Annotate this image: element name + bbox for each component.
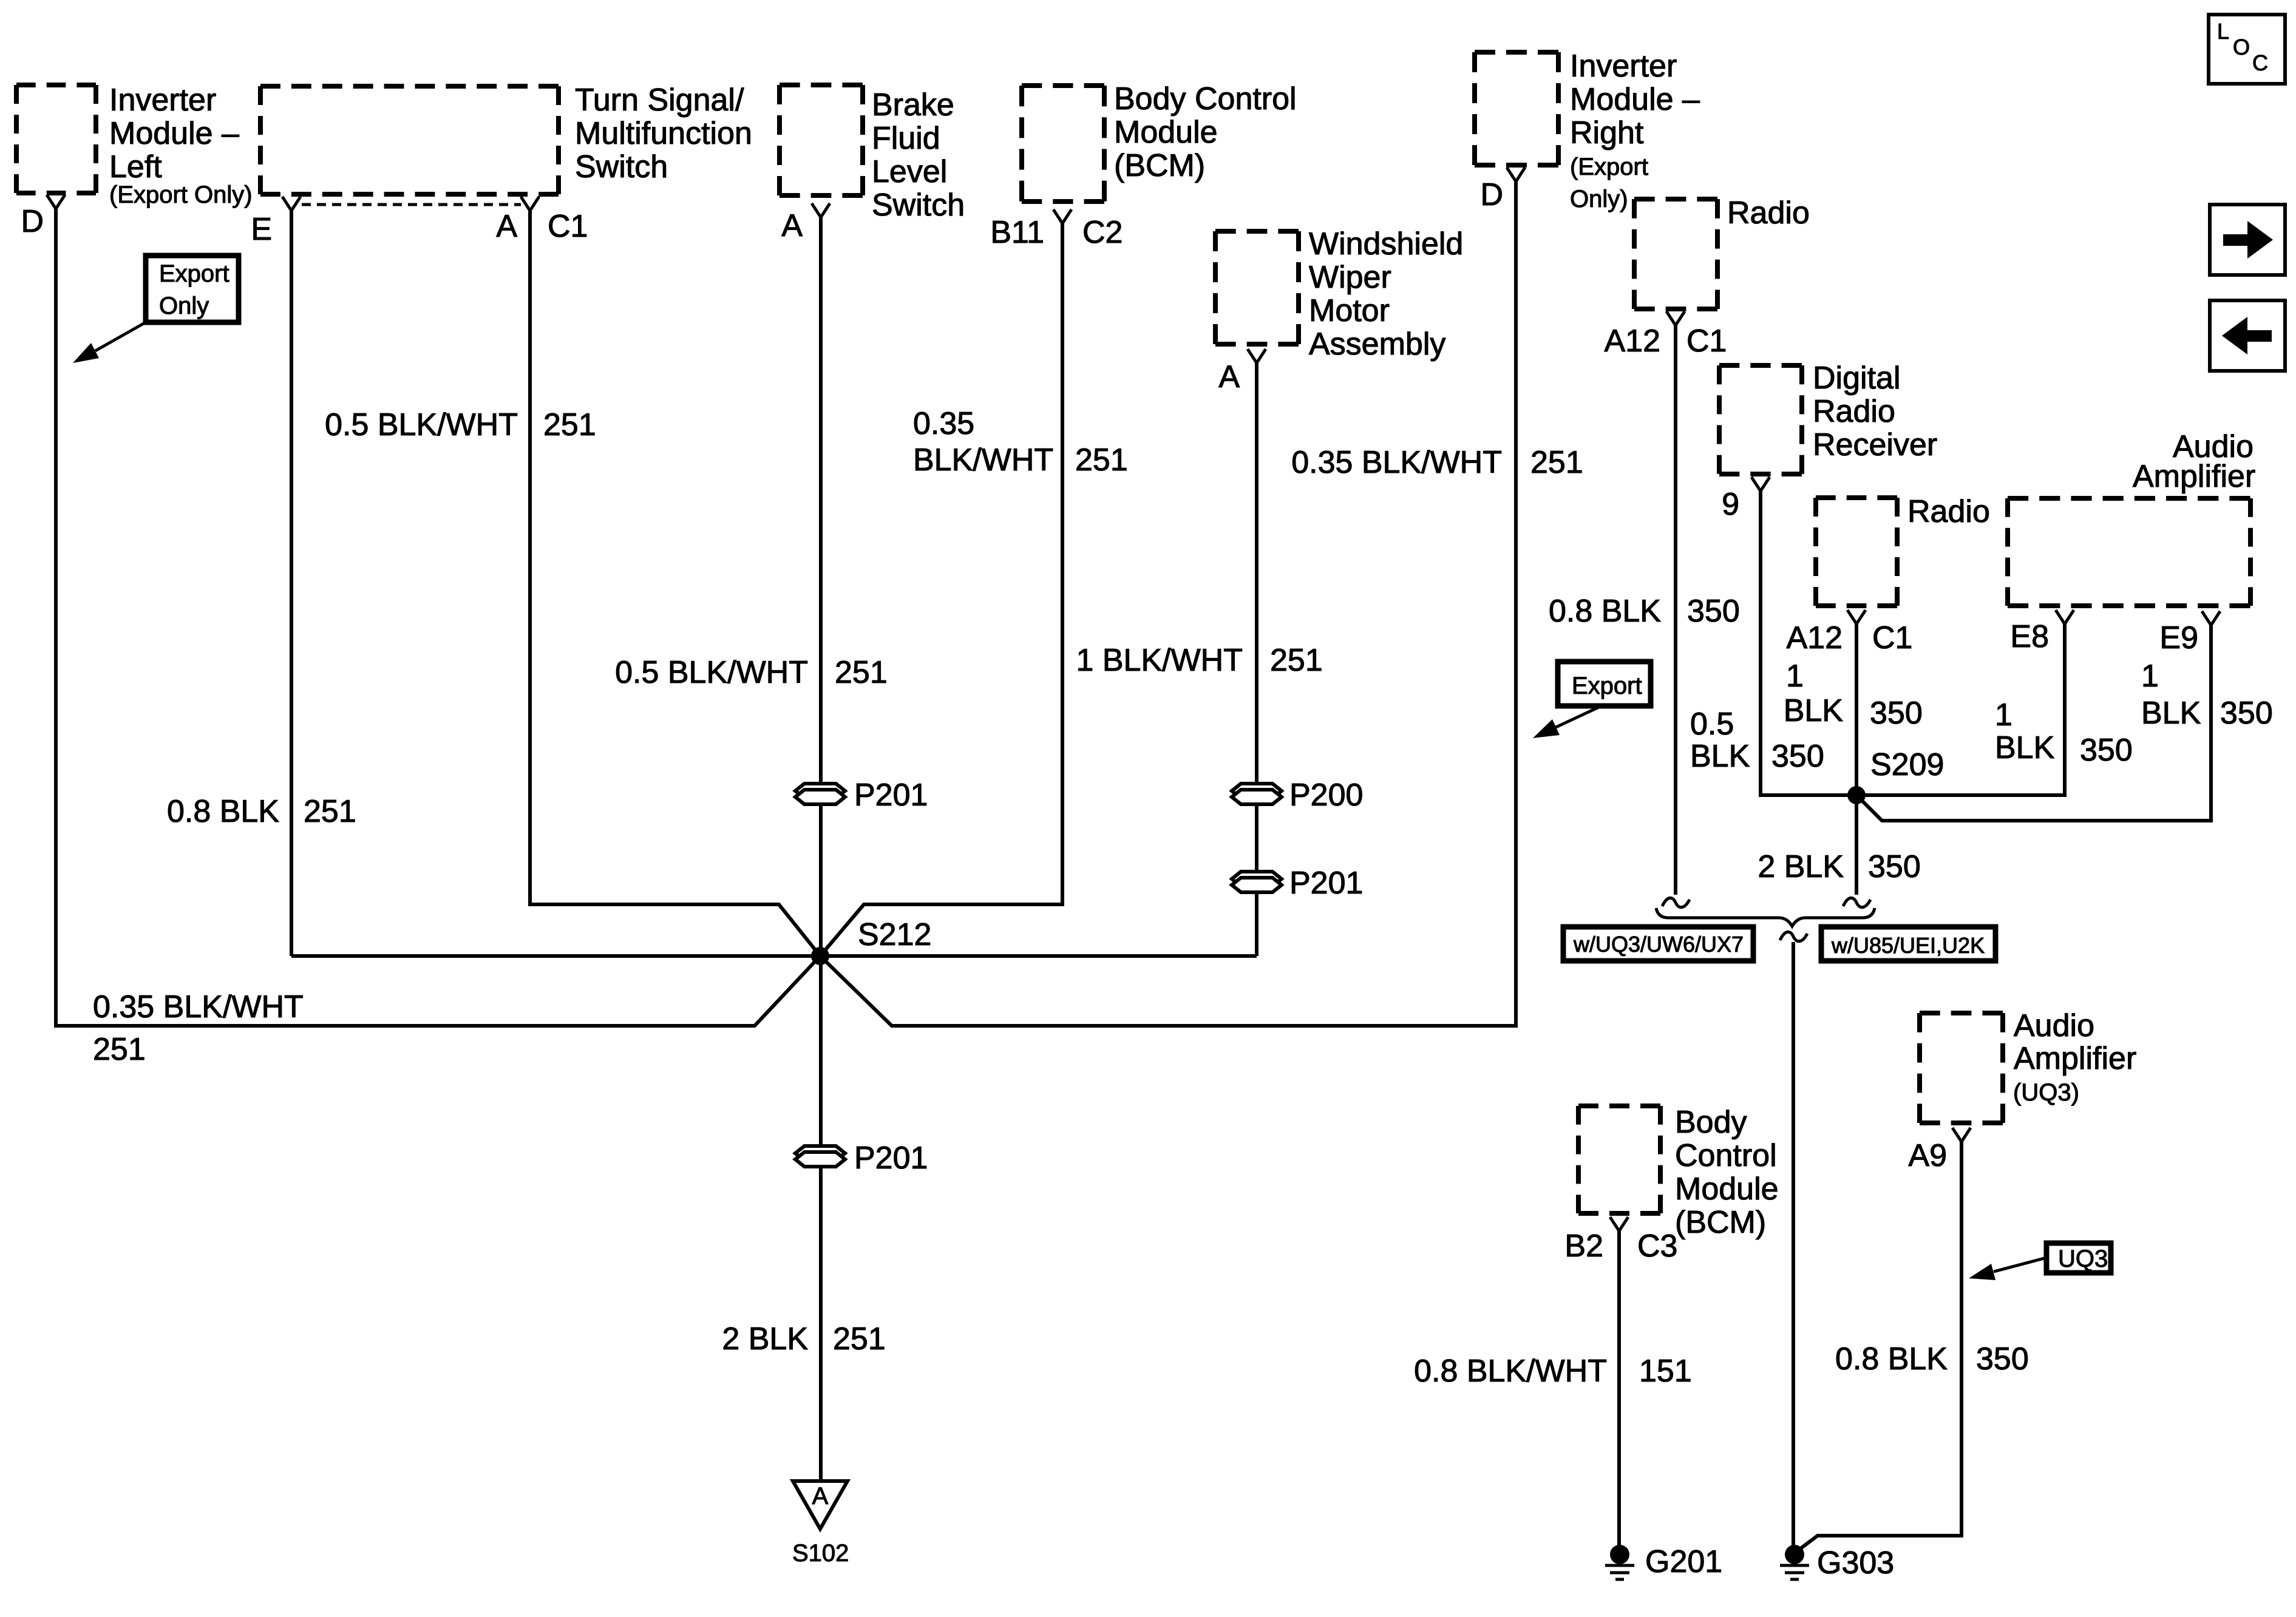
w/UQ3/UW6/UX7 option box [1563, 927, 1753, 961]
svg-text:Multifunction: Multifunction [575, 116, 752, 151]
svg-text:0.35 BLK/WHT: 0.35 BLK/WHT [1291, 445, 1502, 480]
wire inverter left D to S212 low horizontal [56, 209, 820, 1026]
pin A12 C1 radio 2 [1847, 610, 1866, 624]
svg-text:Export: Export [159, 260, 229, 287]
svg-text:350: 350 [1868, 849, 1921, 884]
svg-text:Brake: Brake [872, 87, 954, 123]
windshield wiper motor assembly box [1215, 231, 1299, 344]
svg-text:350: 350 [2220, 696, 2273, 731]
svg-text:Radio: Radio [1907, 494, 1990, 529]
svg-text:0.35 BLK/WHT: 0.35 BLK/WHT [93, 989, 304, 1025]
radio box 2 [1816, 498, 1897, 606]
svg-text:251: 251 [1530, 445, 1583, 480]
inverter module right box [1475, 52, 1558, 165]
squiggle end radio 1 wire [1662, 898, 1690, 907]
svg-text:350: 350 [2080, 733, 2133, 768]
connector P200 on wiper wire [1232, 778, 1363, 813]
body control module bcm 2 label [1675, 1105, 1779, 1240]
svg-text:1: 1 [2141, 659, 2159, 694]
svg-text:BLK: BLK [2141, 696, 2201, 731]
inverter module right label [1570, 49, 1700, 212]
svg-text:0.8 BLK: 0.8 BLK [1549, 594, 1661, 629]
svg-text:1: 1 [1995, 697, 2012, 733]
svg-text:C1: C1 [1872, 620, 1912, 656]
svg-text:350: 350 [1976, 1341, 2029, 1377]
svg-text:C1: C1 [548, 209, 588, 244]
svg-text:O: O [2233, 35, 2250, 59]
svg-text:E8: E8 [2010, 619, 2049, 654]
radio box 1 [1634, 199, 1717, 309]
svg-text:UQ3: UQ3 [2058, 1246, 2108, 1272]
svg-text:A12: A12 [1604, 324, 1660, 359]
S102 triangle [793, 1481, 847, 1529]
body control module bcm label [1114, 81, 1297, 183]
svg-text:Radio: Radio [1727, 195, 1810, 231]
svg-text:A: A [496, 209, 517, 244]
svg-text:S102: S102 [792, 1540, 849, 1567]
svg-text:G303: G303 [1817, 1545, 1894, 1581]
wire turn signal E to S212 [290, 211, 293, 956]
pin A wiper motor [1248, 349, 1266, 363]
svg-text:Amplifier: Amplifier [2014, 1041, 2136, 1076]
svg-text:0.8 BLK: 0.8 BLK [1835, 1341, 1948, 1377]
pin A brake fluid [812, 203, 830, 217]
svg-text:Windshield: Windshield [1309, 226, 1463, 262]
svg-text:Assembly: Assembly [1309, 327, 1445, 362]
inverter module left box [16, 85, 96, 193]
w/U85/UEI,U2K option box [1821, 927, 1995, 961]
svg-text:Receiver: Receiver [1813, 427, 1937, 463]
pin A12 C1 radio 1 [1666, 311, 1685, 325]
svg-text:251: 251 [93, 1032, 146, 1067]
audio amplifier uq3 box [1920, 1013, 2003, 1123]
svg-text:BLK: BLK [1784, 693, 1844, 728]
svg-text:P200: P200 [1289, 778, 1363, 813]
svg-text:Switch: Switch [872, 188, 965, 223]
svg-text:Digital: Digital [1813, 361, 1901, 396]
svg-text:L: L [2217, 19, 2229, 44]
wire from brace down to G303 [1792, 942, 1795, 1550]
svg-text:E: E [251, 212, 272, 247]
svg-text:Inverter: Inverter [109, 83, 216, 118]
wire radio 2 down through S209 to splice brace [1855, 624, 1858, 895]
pin A turn signal [521, 197, 539, 211]
svg-text:Right: Right [1570, 115, 1644, 151]
svg-text:Audio: Audio [2014, 1008, 2094, 1043]
svg-text:Only): Only) [1570, 186, 1628, 212]
svg-text:Module –: Module – [1570, 82, 1700, 117]
svg-text:1: 1 [1786, 659, 1804, 694]
svg-text:C: C [2252, 50, 2268, 75]
audio amplifier uq3 label [2013, 1008, 2136, 1106]
wire S212 horizontal E to wiper [291, 954, 1257, 958]
svg-text:B11: B11 [990, 215, 1044, 250]
export only box with arrow [73, 256, 239, 363]
svg-text:0.8 BLK: 0.8 BLK [167, 794, 279, 829]
svg-text:w/UQ3/UW6/UX7: w/UQ3/UW6/UX7 [1573, 932, 1744, 957]
svg-text:P201: P201 [854, 778, 928, 813]
wire bcm B11 C2 to S212 [820, 223, 1062, 956]
wire audio amplifier uq3 A9 down to G303 [1796, 1142, 1961, 1552]
pin 9 digital radio receiver [1751, 477, 1770, 491]
body control module bcm box [1022, 86, 1104, 202]
left arrow box [2210, 300, 2285, 371]
squiggle end radio 2 wire [1843, 898, 1870, 907]
brake fluid level switch label [872, 87, 965, 223]
connector P201 on brake fluid wire [795, 778, 928, 813]
wire brake fluid A down through S212 to S102 [819, 217, 823, 1479]
svg-text:C1: C1 [1686, 324, 1727, 359]
svg-text:A: A [812, 1483, 829, 1510]
svg-text:2 BLK: 2 BLK [722, 1321, 808, 1357]
svg-text:2 BLK: 2 BLK [1758, 849, 1844, 884]
audio amplifier label [2133, 429, 2255, 494]
pin B2 C3 bcm 2 [1610, 1217, 1628, 1231]
svg-text:251: 251 [1075, 442, 1128, 478]
svg-text:350: 350 [1687, 594, 1740, 629]
svg-text:Turn Signal/: Turn Signal/ [575, 83, 744, 118]
svg-text:G201: G201 [1645, 1544, 1722, 1579]
wire turn signal A to S212 upper horizontal [530, 211, 820, 956]
ground G303 [1780, 1545, 1894, 1581]
svg-text:Motor: Motor [1309, 293, 1390, 328]
svg-text:Only: Only [159, 293, 209, 319]
body control module bcm box 2 [1578, 1106, 1660, 1213]
svg-text:BLK: BLK [1995, 730, 2055, 765]
svg-text:350: 350 [1870, 696, 1923, 731]
svg-text:S212: S212 [858, 917, 931, 952]
digital radio receiver box [1719, 365, 1802, 474]
wire audio amplifier E9 to S209 [1856, 625, 2211, 821]
svg-text:C3: C3 [1637, 1229, 1677, 1264]
connector P201 on S212 to S102 wire [795, 1141, 928, 1176]
junction S212 [811, 947, 829, 965]
svg-text:(UQ3): (UQ3) [2013, 1079, 2079, 1106]
digital radio receiver label [1813, 361, 1937, 463]
svg-text:Level: Level [872, 154, 947, 189]
svg-text:Export: Export [1572, 673, 1642, 699]
svg-text:B2: B2 [1564, 1229, 1603, 1264]
wire inverter right D down and left to S212 [820, 181, 1516, 1026]
svg-text:A12: A12 [1786, 620, 1843, 656]
wire wiper A down to S212 horizontal [1255, 363, 1258, 956]
pin D inverter left [47, 195, 65, 209]
svg-text:0.8 BLK/WHT: 0.8 BLK/WHT [1414, 1354, 1607, 1389]
svg-text:Inverter: Inverter [1570, 49, 1677, 84]
svg-text:151: 151 [1639, 1354, 1692, 1389]
audio amplifier box [2008, 498, 2250, 606]
svg-text:251: 251 [304, 794, 356, 829]
svg-text:Body Control: Body Control [1114, 81, 1297, 117]
wire radio 1 down to splice brace [1674, 325, 1677, 895]
svg-text:w/U85/UEI,U2K: w/U85/UEI,U2K [1831, 933, 1985, 958]
svg-text:251: 251 [833, 1321, 886, 1357]
right arrow box [2210, 205, 2285, 275]
pin E turn signal [282, 197, 301, 211]
svg-text:0.5 BLK/WHT: 0.5 BLK/WHT [615, 655, 808, 690]
svg-text:C2: C2 [1082, 215, 1123, 250]
brake fluid level switch box [779, 85, 863, 195]
svg-text:BLK: BLK [1690, 739, 1750, 774]
svg-text:Module: Module [1114, 115, 1218, 150]
turn signal inner dashed line [302, 203, 521, 206]
svg-text:D: D [1480, 177, 1503, 212]
pin B11 C2 bcm [1053, 209, 1072, 223]
svg-text:0.5 BLK/WHT: 0.5 BLK/WHT [325, 407, 518, 442]
ground G201 [1605, 1544, 1722, 1579]
pin D inverter right [1507, 168, 1525, 181]
svg-text:1 BLK/WHT: 1 BLK/WHT [1076, 643, 1243, 678]
svg-text:A: A [1218, 359, 1240, 395]
svg-text:Body: Body [1675, 1105, 1747, 1140]
svg-text:Fluid: Fluid [872, 121, 940, 156]
junction S209 [1847, 786, 1866, 804]
turn signal multifunction switch box [260, 86, 559, 194]
pin E9 audio amplifier [2202, 611, 2220, 625]
uq3 box with arrow [1969, 1243, 2111, 1280]
squiggle below brace [1780, 932, 1807, 941]
svg-text:E9: E9 [2159, 620, 2198, 656]
svg-text:Switch: Switch [575, 149, 668, 185]
svg-text:251: 251 [543, 407, 596, 442]
svg-text:P201: P201 [1289, 866, 1363, 901]
underbrace [1656, 908, 1875, 926]
svg-text:A: A [781, 208, 803, 243]
wire bcm 2 down to G201 [1617, 1231, 1621, 1547]
svg-text:Module –: Module – [109, 116, 239, 151]
svg-text:P201: P201 [854, 1141, 928, 1176]
svg-text:Wiper: Wiper [1309, 260, 1391, 295]
wire digital radio receiver 9 to S209 [1761, 491, 1856, 795]
svg-text:350: 350 [1771, 739, 1824, 774]
windshield wiper motor assembly label [1309, 226, 1463, 362]
svg-text:251: 251 [835, 655, 888, 690]
svg-text:Control: Control [1675, 1138, 1777, 1173]
loc box [2209, 15, 2285, 84]
wire audio amplifier E8 to S209 [1856, 624, 2065, 795]
svg-text:D: D [21, 204, 44, 239]
svg-text:251: 251 [1270, 643, 1323, 678]
svg-text:(Export: (Export [1570, 154, 1648, 180]
svg-text:0.35: 0.35 [913, 406, 974, 441]
pin E8 audio amplifier [2056, 610, 2074, 624]
svg-text:S209: S209 [1870, 747, 1944, 782]
svg-text:0.5: 0.5 [1690, 707, 1734, 742]
connector P201 lower on wiper wire [1232, 866, 1363, 901]
svg-text:9: 9 [1722, 487, 1739, 522]
turn signal multifunction switch label [575, 83, 752, 185]
svg-text:(BCM): (BCM) [1114, 148, 1205, 183]
svg-text:Amplifier: Amplifier [2133, 459, 2255, 494]
svg-text:(Export Only): (Export Only) [109, 181, 253, 208]
svg-text:Left: Left [109, 149, 162, 185]
svg-text:Radio: Radio [1813, 394, 1895, 429]
pin A9 audio amplifier uq3 [1952, 1128, 1971, 1142]
svg-text:Module: Module [1675, 1171, 1779, 1207]
export box with arrow [1533, 662, 1651, 738]
svg-text:(BCM): (BCM) [1675, 1205, 1766, 1240]
svg-text:A9: A9 [1908, 1138, 1947, 1173]
svg-text:BLK/WHT: BLK/WHT [913, 442, 1053, 478]
inverter module left label [109, 83, 253, 208]
